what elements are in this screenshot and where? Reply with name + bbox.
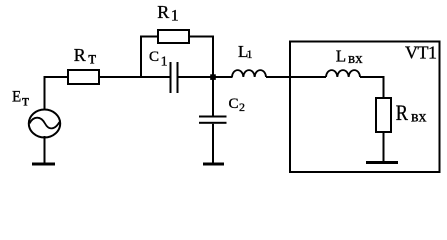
label Rвх — [396, 100, 427, 126]
svg-text:R: R — [157, 2, 169, 22]
wire Rг to C1 — [99, 76, 170, 78]
svg-text:R: R — [74, 45, 86, 65]
source E1 (AC generator Eг) — [29, 110, 60, 138]
svg-text:L: L — [336, 47, 346, 66]
label Eг — [12, 89, 29, 110]
label Lвх — [336, 47, 363, 68]
wire corner down to Rвх — [383, 76, 385, 98]
svg-text:C: C — [149, 49, 159, 65]
label R1 — [157, 2, 179, 25]
wire source bottom vertical — [44, 136, 46, 163]
wire Rвх to ground — [383, 132, 385, 162]
box VT1 — [290, 42, 440, 173]
wire R1 right branch vertical down to C2 — [212, 36, 214, 117]
svg-text:2: 2 — [239, 100, 245, 114]
label Rг — [74, 45, 96, 68]
svg-text:вх: вх — [348, 51, 363, 67]
svg-text:C: C — [229, 96, 239, 112]
wire R1 right horizontal — [189, 36, 214, 38]
wire L1 to box / Lвх — [266, 76, 326, 78]
wire source top vertical — [44, 76, 46, 110]
inductor L1 — [232, 70, 266, 77]
junction node dot — [210, 74, 216, 80]
svg-text:вх: вх — [411, 109, 427, 126]
resistor Rг — [68, 70, 99, 84]
svg-text:1: 1 — [171, 8, 179, 25]
ground (Rвх) — [366, 161, 398, 164]
svg-text:т: т — [88, 48, 96, 68]
ground (C2) — [203, 163, 224, 166]
capacitor C2 — [199, 116, 227, 124]
label C1 — [149, 49, 168, 70]
wire C2 to ground — [212, 124, 214, 163]
svg-text:1: 1 — [247, 47, 253, 61]
wire R1 left branch vertical — [140, 36, 142, 77]
capacitor C1 — [170, 62, 179, 93]
wire main horizontal left — [44, 76, 69, 78]
wire Lвх to corner — [360, 76, 385, 78]
svg-text:1: 1 — [161, 55, 168, 70]
ground (source) — [32, 163, 55, 166]
inductor Lвх — [326, 70, 360, 77]
wire C1 to junction — [179, 76, 233, 78]
wire R1 left horizontal — [140, 36, 158, 38]
label L1 — [238, 42, 253, 61]
label C2 — [229, 96, 246, 114]
svg-text:VT1: VT1 — [405, 43, 437, 63]
svg-text:т: т — [22, 93, 29, 110]
svg-text:E: E — [12, 89, 21, 106]
svg-text:R: R — [396, 100, 408, 125]
resistor Rвх — [376, 98, 391, 132]
resistor R1 — [158, 30, 189, 43]
